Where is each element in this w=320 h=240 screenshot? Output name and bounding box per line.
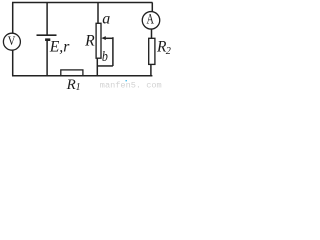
- label R: [84, 33, 95, 50]
- label a: [102, 11, 110, 28]
- wiper arrow: [101, 36, 113, 40]
- svg-text:A: A: [147, 12, 155, 28]
- svg-text:E,r: E,r: [49, 38, 71, 55]
- wire rheostat branch upper: [97, 2, 99, 23]
- svg-text:b: b: [102, 48, 108, 65]
- voltmeter V: [3, 33, 20, 50]
- wire bottom rail: [12, 75, 152, 77]
- svg-text:a: a: [102, 11, 110, 28]
- label R1: [66, 77, 81, 93]
- svg-text:manfen5. com: manfen5. com: [100, 81, 162, 91]
- ammeter label A: [147, 12, 155, 28]
- resistor R1 body: [61, 70, 83, 76]
- svg-text:R: R: [66, 77, 76, 93]
- wire battery branch upper: [46, 2, 48, 34]
- wire ammeter to R2: [151, 29, 153, 38]
- label E,r: [49, 38, 71, 55]
- wire battery branch lower: [46, 39, 48, 75]
- resistor R2 body: [149, 38, 155, 64]
- watermark manfen5.com: [100, 80, 162, 91]
- svg-text:1: 1: [76, 82, 81, 93]
- battery E,r short plate: [45, 38, 50, 41]
- wire left edge lower: [12, 50, 14, 76]
- wire wiper to node b: [97, 65, 113, 67]
- wire top rail corner down to ammeter: [151, 2, 153, 11]
- rheostat R body: [96, 23, 101, 58]
- svg-text:V: V: [8, 34, 16, 48]
- wire left edge upper: [12, 2, 14, 33]
- label b: [102, 48, 108, 65]
- svg-text:R: R: [84, 33, 95, 50]
- wire rheostat branch lower: [96, 58, 98, 75]
- wire R2 to bottom rail: [150, 64, 152, 75]
- ammeter A: [142, 12, 160, 30]
- label R2: [156, 38, 171, 56]
- wire top rail: [12, 1, 152, 3]
- battery E,r long plate: [37, 34, 57, 36]
- svg-text:2: 2: [166, 46, 171, 57]
- wiper lead vertical: [112, 37, 114, 66]
- voltmeter label V: [8, 34, 16, 48]
